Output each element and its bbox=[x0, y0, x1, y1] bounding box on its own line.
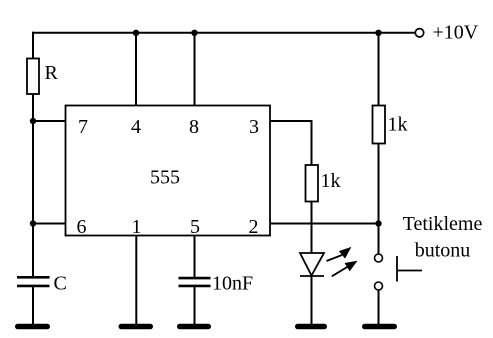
wire LED cathode to ground bbox=[311, 276, 313, 325]
wire pin 7 bbox=[33, 120, 66, 122]
ground (10nF) bbox=[180, 324, 209, 330]
svg-text:1: 1 bbox=[132, 216, 142, 238]
push button actuator bbox=[397, 256, 422, 282]
svg-text:1k: 1k bbox=[321, 170, 341, 192]
ground (pin 1) bbox=[121, 324, 150, 330]
svg-text:5: 5 bbox=[190, 216, 200, 238]
node pin2 junction bbox=[375, 220, 381, 226]
push button contact bottom bbox=[375, 282, 383, 290]
svg-text:10nF: 10nF bbox=[212, 273, 253, 295]
wire capacitor C to ground bbox=[32, 285, 34, 325]
svg-text:6: 6 bbox=[77, 216, 87, 238]
wire pin 6 bbox=[33, 223, 66, 225]
svg-text:8: 8 bbox=[189, 116, 199, 138]
node pin7 junction bbox=[30, 118, 36, 124]
svg-text:R: R bbox=[45, 62, 59, 84]
wire top supply rail bbox=[32, 32, 415, 34]
wire pin 1 to ground bbox=[135, 236, 137, 326]
wire pin 3 bbox=[270, 121, 312, 253]
LED emission arrow 1 bbox=[327, 249, 350, 262]
resistor R3 1k (pull-up) bbox=[373, 106, 386, 144]
svg-text:3: 3 bbox=[249, 116, 259, 138]
capacitor C bbox=[17, 277, 50, 286]
wire left rail bbox=[32, 32, 34, 277]
svg-text:Tetikleme: Tetikleme bbox=[403, 213, 483, 235]
wire 10nF capacitor to ground bbox=[194, 286, 196, 325]
wire pin 5 to capacitor bbox=[194, 236, 196, 278]
resistor R bbox=[27, 59, 39, 95]
op-amp U1: 555 timer IC body bbox=[66, 106, 271, 236]
push button contact top bbox=[375, 254, 383, 262]
wire pin 4 to rail bbox=[135, 33, 137, 106]
svg-text:555: 555 bbox=[150, 167, 180, 189]
terminal +10V bbox=[415, 29, 423, 37]
svg-text:2: 2 bbox=[249, 216, 259, 238]
resistor R2 1k (output) bbox=[306, 165, 319, 202]
svg-text:7: 7 bbox=[78, 116, 88, 138]
wire pin 2 bbox=[270, 223, 379, 225]
node pin6 junction bbox=[30, 220, 36, 226]
svg-text:1k: 1k bbox=[388, 114, 408, 136]
wire button to ground bbox=[378, 290, 380, 325]
node supply junction right rail bbox=[375, 30, 381, 36]
ground (capacitor C) bbox=[18, 324, 48, 330]
diode LED D1 bbox=[300, 253, 324, 276]
wire pin 8 to rail bbox=[194, 33, 196, 106]
svg-text:butonu: butonu bbox=[415, 240, 471, 262]
ground (LED) bbox=[298, 324, 325, 330]
LED emission arrow 2 bbox=[332, 262, 356, 276]
svg-text:4: 4 bbox=[131, 116, 141, 138]
node supply junction pin8 bbox=[191, 30, 197, 36]
ground (button) bbox=[365, 324, 395, 330]
node supply junction pin4 bbox=[133, 30, 139, 36]
wire right rail bbox=[378, 33, 380, 254]
svg-text:+10V: +10V bbox=[433, 22, 479, 44]
capacitor 10nF bbox=[179, 278, 211, 286]
svg-text:C: C bbox=[54, 273, 67, 295]
